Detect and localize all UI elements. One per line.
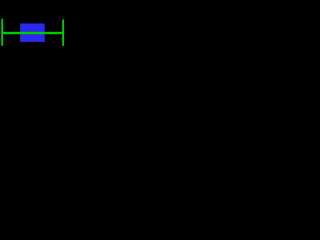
pin 2 terminal bar (right) [62,19,64,46]
fuse F1 body [20,23,45,41]
wire (horizontal net through fuse body) [1,32,63,34]
pin 1 terminal bar (left) [1,19,3,46]
